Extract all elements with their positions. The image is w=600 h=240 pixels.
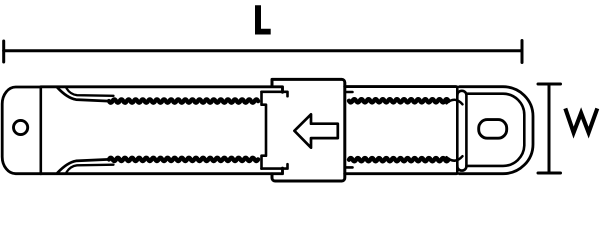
serration teeth top-right [349,99,448,102]
buckle right slot lower ledge [346,166,353,169]
label W [565,108,597,132]
left head / strap boundary line [39,87,42,174]
left mounting head (rounded eyelet plate) [2,87,41,174]
collar left-edge stub to bottom outer line [456,165,459,174]
buckle left slot upper edge [262,92,288,96]
direction arrow inside buckle [294,114,337,147]
buckle housing outline [272,79,345,181]
strap neck bump top-right [447,100,463,105]
right head oval slot [479,120,507,139]
collar between strap and right head [457,91,466,171]
collar left-edge stub to top outer line [456,87,459,96]
serration teeth top-left [109,100,258,103]
right head outer contour [460,87,534,174]
strap inner edge sweep (bottom left) [58,159,110,172]
strap top outer edge (right section) [345,85,456,88]
serration teeth bottom-left [109,158,258,161]
strap inner edge sweep (top left) [58,88,110,101]
strap neck bump bottom-right [447,156,463,161]
dimension line L (horizontal) [4,41,522,63]
strap bottom outer edge (right section) [345,172,456,175]
buckle left face with lip (upper) [262,92,267,169]
strap top outer edge (left section) [41,87,283,93]
buckle left slot lower edge [262,164,288,168]
buckle right slot upper ledge [346,91,353,94]
dimension line W (vertical) [538,84,561,173]
strap inner lip curve (top left) [67,88,114,96]
strap inner lip curve (bottom left) [67,165,114,173]
strap bottom outer edge (left section) [41,168,283,174]
label L [255,5,271,34]
right head inner contour [466,94,524,166]
left head round hole [14,120,28,134]
serration teeth bottom-right [349,158,448,161]
